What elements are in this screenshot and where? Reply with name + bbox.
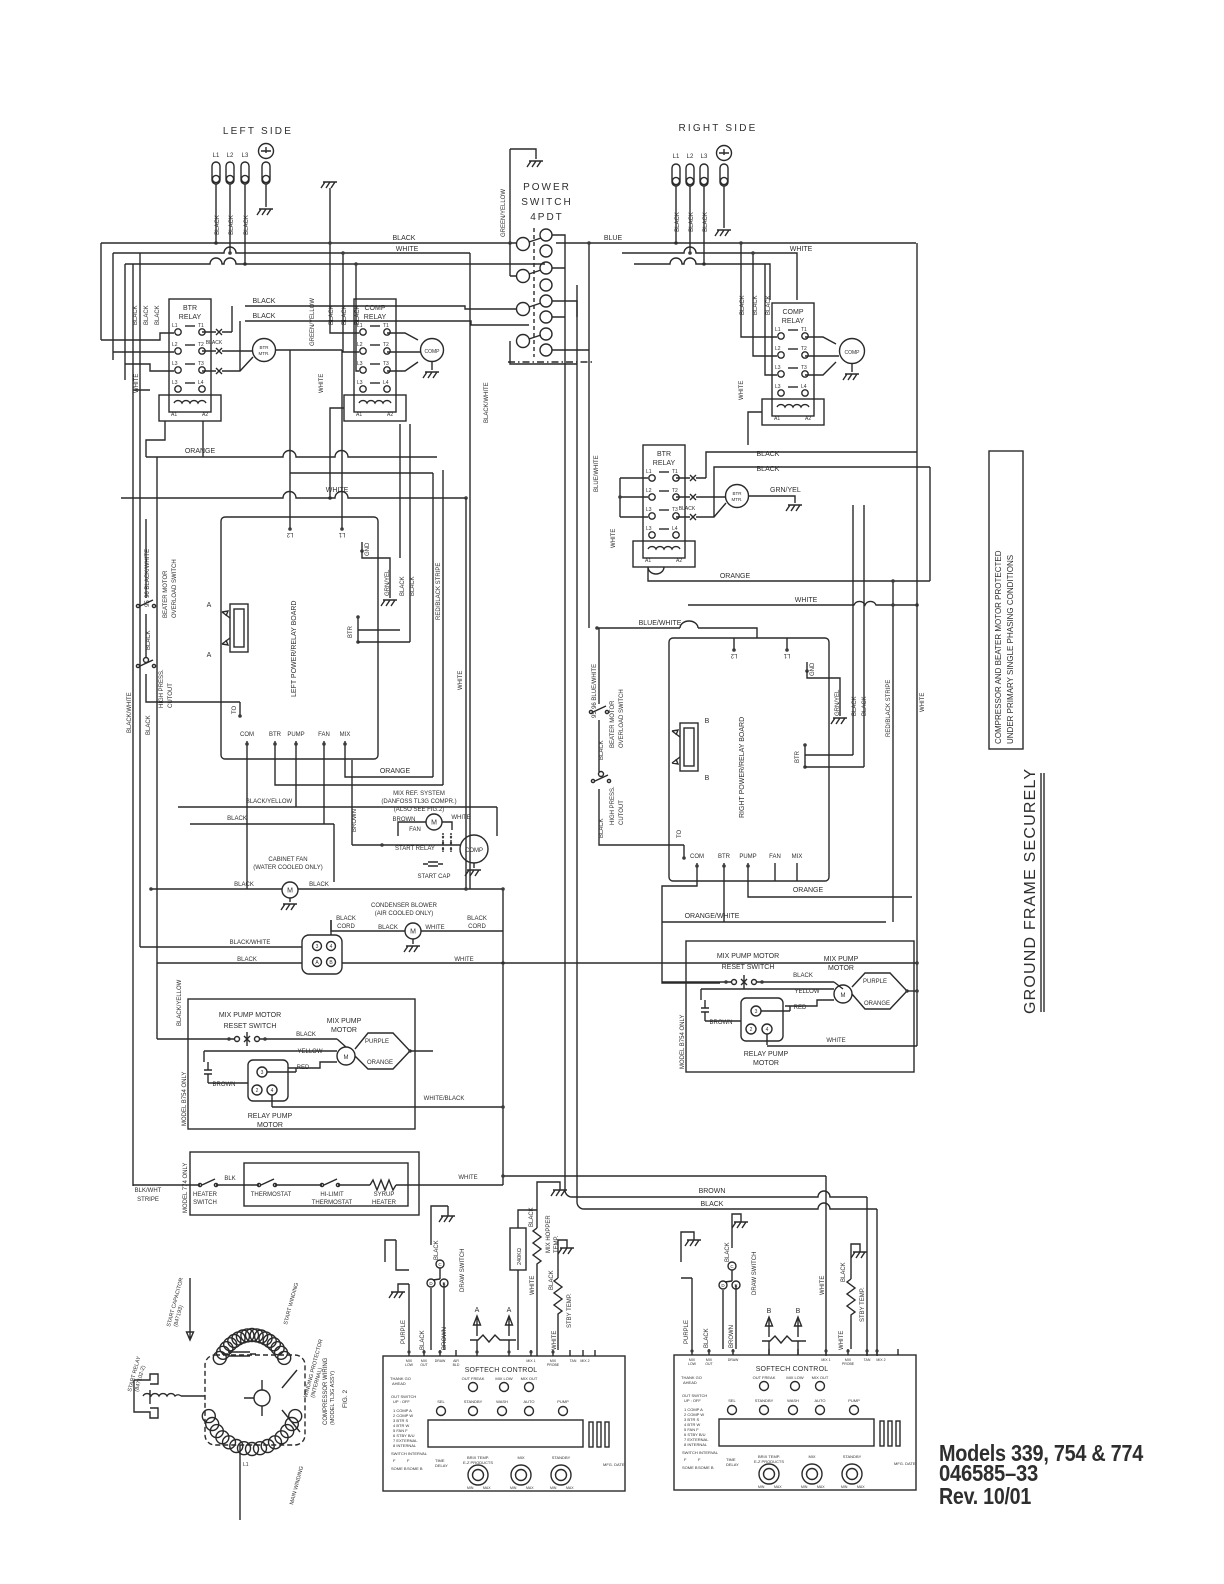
svg-text:CORD: CORD bbox=[468, 924, 486, 930]
svg-text:BLK/WHT: BLK/WHT bbox=[135, 1188, 162, 1194]
svg-text:MIX 1: MIX 1 bbox=[821, 1358, 830, 1362]
svg-text:A: A bbox=[315, 960, 319, 966]
svg-text:WHITE: WHITE bbox=[611, 529, 617, 548]
svg-text:RELAY: RELAY bbox=[179, 314, 202, 321]
svg-text:B: B bbox=[796, 1308, 801, 1315]
svg-text:FAN: FAN bbox=[318, 732, 330, 738]
svg-text:START RELAY: START RELAY bbox=[395, 846, 435, 852]
svg-text:BLACK: BLACK bbox=[467, 916, 487, 922]
svg-text:WHITE: WHITE bbox=[425, 925, 444, 931]
svg-text:L1: L1 bbox=[783, 652, 790, 658]
svg-text:TO: TO bbox=[677, 829, 683, 838]
svg-text:GRN/YEL: GRN/YEL bbox=[385, 569, 391, 596]
svg-text:MTR.: MTR. bbox=[259, 351, 270, 356]
svg-text:BLACK: BLACK bbox=[862, 696, 868, 716]
svg-text:LEFT SIDE: LEFT SIDE bbox=[223, 126, 293, 137]
svg-text:WHITE: WHITE bbox=[790, 246, 813, 253]
svg-text:BTR: BTR bbox=[348, 625, 354, 638]
svg-text:GREEN/YELLOW: GREEN/YELLOW bbox=[310, 298, 316, 346]
svg-text:BLACK: BLACK bbox=[237, 957, 257, 963]
svg-text:BLACK/WHITE: BLACK/WHITE bbox=[230, 940, 271, 946]
svg-text:BLACK: BLACK bbox=[434, 1240, 440, 1260]
svg-text:PURPLE: PURPLE bbox=[863, 979, 887, 985]
svg-text:COMPRESSOR WIRING: COMPRESSOR WIRING bbox=[323, 1357, 329, 1425]
svg-text:ORANGE: ORANGE bbox=[367, 1060, 393, 1066]
svg-text:WHITE: WHITE bbox=[454, 957, 473, 963]
svg-text:FAN: FAN bbox=[409, 827, 421, 833]
svg-text:SWITCH: SWITCH bbox=[521, 197, 572, 208]
svg-text:STRIPE: STRIPE bbox=[137, 1197, 159, 1203]
svg-text:B: B bbox=[705, 775, 710, 782]
svg-text:B: B bbox=[705, 718, 710, 725]
svg-text:DRAW SWITCH: DRAW SWITCH bbox=[460, 1249, 466, 1292]
svg-text:STBY TEMP.: STBY TEMP. bbox=[860, 1287, 866, 1322]
svg-text:RED/BLACK STRIPE: RED/BLACK STRIPE bbox=[436, 563, 442, 620]
svg-text:COM: COM bbox=[240, 732, 254, 738]
svg-text:BLACK: BLACK bbox=[144, 305, 150, 325]
svg-text:BTR: BTR bbox=[260, 345, 270, 350]
svg-text:BLACK: BLACK bbox=[599, 740, 605, 760]
svg-text:POWER: POWER bbox=[523, 182, 571, 193]
svg-text:BLACK: BLACK bbox=[296, 1032, 316, 1038]
svg-text:PUMP: PUMP bbox=[287, 732, 304, 738]
svg-text:2: 2 bbox=[256, 1088, 259, 1094]
svg-text:RELAY PUMP: RELAY PUMP bbox=[248, 1113, 293, 1120]
svg-text:MODEL B754 ONLY: MODEL B754 ONLY bbox=[680, 1015, 686, 1069]
svg-text:B: B bbox=[329, 960, 333, 966]
svg-text:L1: L1 bbox=[338, 531, 345, 537]
svg-text:A: A bbox=[207, 652, 212, 659]
svg-text:CABINET FAN: CABINET FAN bbox=[268, 857, 307, 863]
svg-text:A: A bbox=[207, 602, 212, 609]
svg-text:4: 4 bbox=[330, 944, 333, 950]
svg-text:BROWN: BROWN bbox=[213, 1082, 236, 1088]
svg-text:CUTOUT: CUTOUT bbox=[168, 683, 174, 708]
svg-text:BLACK: BLACK bbox=[146, 715, 152, 735]
svg-text:240KΩ: 240KΩ bbox=[517, 1248, 523, 1265]
svg-text:YELLOW: YELLOW bbox=[794, 989, 819, 995]
svg-text:BROWN: BROWN bbox=[442, 1327, 448, 1350]
svg-text:3: 3 bbox=[316, 944, 319, 950]
svg-text:BLACK: BLACK bbox=[133, 305, 139, 325]
svg-text:BLACK: BLACK bbox=[679, 506, 696, 512]
svg-text:PURPLE: PURPLE bbox=[401, 1320, 407, 1344]
svg-text:CORD: CORD bbox=[337, 924, 355, 930]
svg-text:RIGHT SIDE: RIGHT SIDE bbox=[678, 123, 757, 134]
svg-text:BROWN: BROWN bbox=[699, 1188, 726, 1195]
svg-text:OUT: OUT bbox=[705, 1362, 713, 1366]
svg-text:START WINDING: START WINDING bbox=[283, 1282, 300, 1325]
svg-text:BLACK: BLACK bbox=[753, 295, 759, 315]
svg-text:WHITE: WHITE bbox=[552, 1331, 558, 1350]
svg-text:BLACK: BLACK bbox=[146, 630, 152, 650]
svg-text:TAN: TAN bbox=[864, 1358, 871, 1362]
svg-text:COMPRESSOR AND BEATER MOTOR PR: COMPRESSOR AND BEATER MOTOR PROTECTED bbox=[994, 550, 1003, 744]
svg-text:LOW: LOW bbox=[405, 1363, 414, 1367]
svg-text:ORANGE: ORANGE bbox=[720, 573, 751, 580]
svg-text:3: 3 bbox=[755, 1009, 758, 1015]
svg-text:LOW: LOW bbox=[688, 1362, 697, 1366]
svg-text:BTR: BTR bbox=[269, 732, 282, 738]
svg-text:A: A bbox=[475, 1307, 480, 1314]
svg-text:RIGHT POWER/RELAY BOARD: RIGHT POWER/RELAY BOARD bbox=[739, 717, 746, 818]
svg-text:BLACK: BLACK bbox=[841, 1262, 847, 1282]
svg-text:PURPLE: PURPLE bbox=[365, 1039, 389, 1045]
svg-text:RELAY PUMP: RELAY PUMP bbox=[744, 1051, 789, 1058]
svg-text:BROWN: BROWN bbox=[710, 1020, 733, 1026]
svg-text:MTR.: MTR. bbox=[732, 497, 743, 502]
svg-text:L1: L1 bbox=[673, 154, 680, 160]
svg-text:(AIR COOLED ONLY): (AIR COOLED ONLY) bbox=[375, 911, 434, 917]
svg-text:HIGH PRESS.: HIGH PRESS. bbox=[610, 786, 616, 825]
svg-text:BLACK: BLACK bbox=[599, 818, 605, 838]
svg-text:GND: GND bbox=[810, 662, 816, 676]
svg-text:BLACK: BLACK bbox=[793, 973, 813, 979]
svg-text:RESET SWITCH: RESET SWITCH bbox=[224, 1023, 277, 1030]
svg-text:WHITE: WHITE bbox=[458, 671, 464, 690]
svg-text:BLACK: BLACK bbox=[704, 1328, 710, 1348]
svg-text:MIX: MIX bbox=[792, 854, 803, 860]
svg-text:BLACK: BLACK bbox=[701, 1201, 724, 1208]
svg-text:(WATER COOLED ONLY): (WATER COOLED ONLY) bbox=[253, 865, 323, 871]
svg-text:WHITE: WHITE bbox=[839, 1331, 845, 1350]
svg-text:HEATER: HEATER bbox=[193, 1192, 218, 1198]
svg-text:BLACK: BLACK bbox=[155, 305, 161, 325]
svg-text:L2: L2 bbox=[687, 154, 694, 160]
svg-text:L2: L2 bbox=[286, 531, 293, 537]
svg-text:BLK: BLK bbox=[224, 1176, 235, 1182]
svg-text:GREEN/YELLOW: GREEN/YELLOW bbox=[501, 189, 507, 237]
svg-text:STBY TEMP.: STBY TEMP. bbox=[567, 1293, 573, 1328]
svg-text:BLACK: BLACK bbox=[410, 576, 416, 596]
svg-text:BLACK: BLACK bbox=[234, 882, 254, 888]
svg-text:L1: L1 bbox=[243, 1462, 249, 1468]
svg-text:4: 4 bbox=[766, 1027, 769, 1033]
svg-text:PURPLE: PURPLE bbox=[684, 1320, 690, 1344]
svg-text:ORANGE: ORANGE bbox=[380, 768, 411, 775]
svg-text:GROUND FRAME SECURELY: GROUND FRAME SECURELY bbox=[1022, 768, 1039, 1014]
svg-text:B: B bbox=[767, 1308, 772, 1315]
svg-text:BLACK: BLACK bbox=[336, 916, 356, 922]
svg-text:DRAW: DRAW bbox=[435, 1359, 446, 1363]
svg-text:COMP: COMP bbox=[425, 349, 441, 355]
svg-text:MIX 2: MIX 2 bbox=[580, 1359, 589, 1363]
svg-text:WHITE: WHITE bbox=[134, 374, 140, 393]
svg-text:2: 2 bbox=[750, 1027, 753, 1033]
svg-text:MOTOR: MOTOR bbox=[828, 965, 854, 972]
svg-text:BLACK: BLACK bbox=[253, 313, 276, 320]
svg-text:COMP: COMP bbox=[365, 305, 386, 312]
svg-text:UNDER PRIMARY SINGLE PHASING C: UNDER PRIMARY SINGLE PHASING CONDITIONS bbox=[1006, 555, 1015, 744]
svg-text:M: M bbox=[841, 993, 846, 999]
svg-text:BLACK: BLACK bbox=[393, 235, 416, 242]
svg-text:OUT: OUT bbox=[420, 1363, 428, 1367]
svg-text:COMP: COMP bbox=[465, 848, 483, 854]
svg-text:COM: COM bbox=[690, 854, 704, 860]
svg-text:COMP: COMP bbox=[783, 309, 804, 316]
svg-text:HI-LIMIT: HI-LIMIT bbox=[320, 1192, 344, 1198]
svg-text:WHITE: WHITE bbox=[820, 1276, 826, 1295]
svg-text:WHITE: WHITE bbox=[396, 246, 419, 253]
svg-text:BTR: BTR bbox=[718, 854, 731, 860]
svg-text:BTR: BTR bbox=[183, 305, 197, 312]
svg-text:BTR: BTR bbox=[795, 750, 801, 763]
svg-text:L2: L2 bbox=[227, 153, 234, 159]
svg-text:FAN: FAN bbox=[769, 854, 781, 860]
svg-text:CONDENSER BLOWER: CONDENSER BLOWER bbox=[371, 903, 438, 909]
svg-text:A: A bbox=[507, 1307, 512, 1314]
svg-text:RESET SWITCH: RESET SWITCH bbox=[722, 964, 775, 971]
svg-text:MIX HOPPER: MIX HOPPER bbox=[546, 1215, 552, 1253]
svg-text:MODEL B754 ONLY: MODEL B754 ONLY bbox=[182, 1072, 188, 1126]
svg-text:BTR: BTR bbox=[733, 491, 743, 496]
svg-text:WHITE: WHITE bbox=[451, 815, 470, 821]
svg-text:GND: GND bbox=[365, 542, 371, 556]
svg-text:BROWN: BROWN bbox=[352, 809, 358, 832]
svg-text:BLUE/WHITE: BLUE/WHITE bbox=[639, 620, 682, 627]
svg-text:GRN/YEL: GRN/YEL bbox=[770, 487, 801, 494]
svg-text:MIX: MIX bbox=[340, 732, 351, 738]
svg-text:BLACK: BLACK bbox=[400, 576, 406, 596]
svg-text:MIX PUMP: MIX PUMP bbox=[327, 1018, 362, 1025]
svg-text:MODEL 774 ONLY: MODEL 774 ONLY bbox=[183, 1163, 189, 1213]
svg-text:L3: L3 bbox=[701, 154, 708, 160]
svg-text:WHITE: WHITE bbox=[319, 374, 325, 393]
svg-text:(MODEL TL3G ASSY): (MODEL TL3G ASSY) bbox=[330, 1371, 336, 1425]
svg-text:RELAY: RELAY bbox=[364, 314, 387, 321]
svg-text:MIX 1: MIX 1 bbox=[526, 1359, 535, 1363]
svg-text:M: M bbox=[344, 1055, 349, 1061]
svg-text:PROBE: PROBE bbox=[842, 1362, 855, 1366]
svg-text:BLACK: BLACK bbox=[852, 696, 858, 716]
svg-text:WHITE: WHITE bbox=[795, 597, 818, 604]
svg-text:DRAW: DRAW bbox=[728, 1358, 739, 1362]
svg-text:4: 4 bbox=[271, 1088, 274, 1094]
svg-text:L2: L2 bbox=[730, 652, 737, 658]
svg-text:BLACK: BLACK bbox=[549, 1270, 555, 1290]
svg-text:BLUE: BLUE bbox=[604, 235, 623, 242]
svg-text:FIG. 2: FIG. 2 bbox=[342, 1390, 349, 1408]
svg-text:ORANGE/WHITE: ORANGE/WHITE bbox=[685, 913, 740, 920]
svg-text:BLACK/WHITE: BLACK/WHITE bbox=[484, 382, 490, 423]
svg-text:3: 3 bbox=[261, 1070, 264, 1076]
svg-text:MIX 2: MIX 2 bbox=[876, 1358, 885, 1362]
svg-text:MIX PUMP MOTOR: MIX PUMP MOTOR bbox=[717, 953, 779, 960]
svg-text:RELAY: RELAY bbox=[782, 318, 805, 325]
svg-text:MAIN WINDING: MAIN WINDING bbox=[289, 1466, 305, 1506]
svg-text:BLACK/YELLOW: BLACK/YELLOW bbox=[177, 979, 183, 1026]
svg-text:BLACK: BLACK bbox=[206, 340, 223, 346]
svg-text:TAN: TAN bbox=[570, 1359, 577, 1363]
svg-text:ORANGE: ORANGE bbox=[864, 1001, 890, 1007]
svg-text:WHITE: WHITE bbox=[826, 1038, 845, 1044]
svg-text:BLACK: BLACK bbox=[420, 1330, 426, 1350]
svg-text:L1: L1 bbox=[213, 153, 220, 159]
svg-text:MOTOR: MOTOR bbox=[257, 1122, 283, 1129]
svg-text:WHITE: WHITE bbox=[458, 1175, 477, 1181]
svg-text:BLACK/WHITE: BLACK/WHITE bbox=[127, 692, 133, 733]
svg-text:BEATER MOTOR: BEATER MOTOR bbox=[163, 570, 169, 618]
svg-text:THERMOSTAT: THERMOSTAT bbox=[312, 1200, 353, 1206]
svg-text:COMP: COMP bbox=[845, 350, 861, 356]
svg-text:TEMP.: TEMP. bbox=[554, 1235, 560, 1253]
svg-text:MOTOR: MOTOR bbox=[753, 1060, 779, 1067]
svg-text:OVERLOAD SWITCH: OVERLOAD SWITCH bbox=[172, 559, 178, 618]
svg-text:OVERLOAD SWITCH: OVERLOAD SWITCH bbox=[619, 689, 625, 748]
svg-text:SWITCH: SWITCH bbox=[193, 1200, 217, 1206]
svg-text:BLUE/WHITE: BLUE/WHITE bbox=[594, 455, 600, 492]
svg-text:THERMOSTAT: THERMOSTAT bbox=[251, 1192, 292, 1198]
svg-text:4PDT: 4PDT bbox=[530, 212, 564, 223]
svg-text:MOTOR: MOTOR bbox=[331, 1027, 357, 1034]
svg-text:CUTOUT: CUTOUT bbox=[619, 800, 625, 825]
svg-text:ORANGE: ORANGE bbox=[185, 448, 216, 455]
svg-text:ORANGE: ORANGE bbox=[793, 887, 824, 894]
svg-text:(DANFOSS TL3G COMPR.): (DANFOSS TL3G COMPR.) bbox=[381, 799, 456, 805]
svg-text:DRAW SWITCH: DRAW SWITCH bbox=[752, 1252, 758, 1295]
svg-text:RELAY: RELAY bbox=[653, 460, 676, 467]
svg-text:YELLOW: YELLOW bbox=[297, 1049, 322, 1055]
svg-text:WHITE: WHITE bbox=[530, 1276, 536, 1295]
svg-text:WHITE: WHITE bbox=[739, 381, 745, 400]
svg-text:PUMP: PUMP bbox=[739, 854, 756, 860]
svg-text:BLACK: BLACK bbox=[309, 882, 329, 888]
svg-text:BLACK: BLACK bbox=[227, 816, 247, 822]
svg-text:SYRUP: SYRUP bbox=[374, 1192, 395, 1198]
svg-text:MIX PUMP: MIX PUMP bbox=[824, 956, 859, 963]
svg-text:GRN/YEL: GRN/YEL bbox=[835, 689, 841, 716]
svg-text:LEFT POWER/RELAY BOARD: LEFT POWER/RELAY BOARD bbox=[291, 601, 298, 697]
svg-text:BLACK: BLACK bbox=[378, 925, 398, 931]
svg-text:BLACK: BLACK bbox=[725, 1242, 731, 1262]
svg-text:PROBE: PROBE bbox=[547, 1363, 560, 1367]
svg-text:BLACK: BLACK bbox=[253, 298, 276, 305]
svg-text:Rev. 10/01: Rev. 10/01 bbox=[939, 1483, 1031, 1509]
svg-text:MIX REF. SYSTEM: MIX REF. SYSTEM bbox=[393, 791, 445, 797]
svg-text:BEATER MOTOR: BEATER MOTOR bbox=[610, 700, 616, 748]
svg-text:MIX PUMP MOTOR: MIX PUMP MOTOR bbox=[219, 1012, 281, 1019]
svg-text:RED/BLACK STRIPE: RED/BLACK STRIPE bbox=[886, 680, 892, 737]
svg-text:BLACK/YELLOW: BLACK/YELLOW bbox=[246, 799, 293, 805]
svg-text:BTR: BTR bbox=[657, 451, 671, 458]
svg-text:(ALSO SEE FIG.2): (ALSO SEE FIG.2) bbox=[394, 807, 444, 813]
svg-text:START CAP: START CAP bbox=[417, 874, 450, 880]
svg-text:BROWN: BROWN bbox=[729, 1325, 735, 1348]
svg-text:HEATER: HEATER bbox=[372, 1200, 397, 1206]
svg-text:BLD: BLD bbox=[453, 1363, 460, 1367]
svg-text:TO: TO bbox=[232, 705, 238, 714]
svg-text:WHITE: WHITE bbox=[920, 693, 926, 712]
svg-text:WHITE/BLACK: WHITE/BLACK bbox=[424, 1096, 465, 1102]
svg-text:L3: L3 bbox=[242, 153, 249, 159]
svg-text:BLACK: BLACK bbox=[766, 295, 772, 315]
